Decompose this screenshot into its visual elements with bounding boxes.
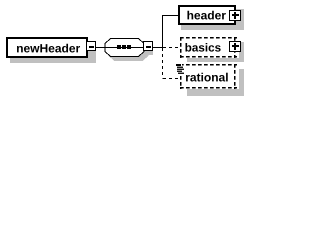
expand plus box of header	[229, 10, 241, 21]
expand minus box of sequence	[143, 41, 153, 51]
expand plus box of basics	[229, 41, 241, 52]
sequence line	[105, 47, 144, 48]
element newHeader box	[6, 37, 88, 58]
element rational label	[186, 73, 228, 82]
wire to header	[162, 15, 180, 16]
element header box	[178, 5, 236, 25]
expand minus box of newHeader	[86, 41, 96, 51]
text-content icon background	[175, 64, 182, 75]
element basics dashed border	[180, 37, 237, 58]
element rational dashed border	[180, 64, 237, 89]
dashed wire to basics	[163, 47, 181, 49]
sequence compositor shadow	[109, 43, 148, 61]
element newHeader label	[17, 44, 80, 53]
element basics shadow	[187, 42, 244, 62]
dashed wire to rational	[163, 78, 181, 80]
element header shadow	[181, 9, 244, 30]
element header label	[187, 11, 225, 20]
wire sequence to branch	[153, 47, 163, 48]
element basics box fill	[180, 37, 239, 58]
element newHeader shadow	[10, 41, 96, 63]
branch vertical solid (to header)	[162, 15, 163, 48]
text-content icon bars	[176, 64, 184, 74]
sequence dots	[117, 45, 121, 49]
sequence compositor octagon	[105, 39, 144, 57]
branch vertical dashed (to basics, rational)	[162, 48, 164, 79]
element rational shadow	[187, 69, 244, 96]
wire newHeader to sequence	[96, 47, 105, 48]
element rational box fill	[180, 64, 239, 89]
element basics label	[185, 43, 220, 52]
shadow of sequence minus box	[147, 51, 153, 55]
